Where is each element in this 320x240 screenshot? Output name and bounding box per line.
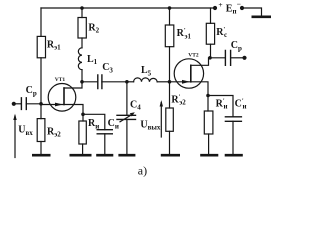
resistor R'e1 [165, 8, 174, 82]
resistor R'c [206, 8, 214, 58]
node drain VT1 / L1 / C3 [80, 80, 84, 84]
wire top supply bus [41, 7, 216, 9]
node C3 / L5 / C4 junction [125, 80, 129, 84]
svg-text:VT1: VT1 [55, 77, 66, 83]
node Ep minus terminal [240, 6, 244, 10]
svg-text:Eп: Eп [226, 4, 237, 16]
svg-text:+: + [218, 0, 222, 9]
wire gate VT2 [170, 81, 191, 83]
capacitor C3 [82, 75, 127, 89]
node junction R'e1 top [168, 6, 172, 10]
ground below Re2 [32, 154, 51, 157]
svg-text:L1: L1 [87, 54, 98, 66]
node R'c / drain VT2 / Cp out [208, 56, 212, 60]
capacitor Ci [83, 114, 112, 154]
ground below Ci [96, 154, 113, 157]
svg-text:Uвх: Uвх [18, 125, 33, 137]
inductor L5 [127, 78, 170, 82]
transistor VT2 [174, 58, 208, 96]
capacitor C4 variable [117, 82, 136, 154]
svg-text:VT2: VT2 [188, 52, 199, 58]
svg-text:R2: R2 [88, 22, 99, 34]
ground below C4 [118, 154, 135, 157]
inductor L1 [78, 38, 82, 82]
node source VT2 [206, 94, 210, 98]
svg-text:R'э1: R'э1 [177, 27, 192, 40]
node source VT1 [81, 113, 85, 117]
svg-text:L5: L5 [141, 65, 152, 77]
node input junction left rail [39, 102, 43, 106]
svg-text:C4: C4 [130, 99, 141, 111]
svg-text:R'и: R'и [216, 97, 228, 110]
wire left rail [40, 8, 42, 119]
ground below C'i [225, 154, 243, 157]
svg-text:Rэ2: Rэ2 [47, 126, 61, 138]
node L5 / R'e1 / R'e2 / VT2 gate [168, 80, 172, 84]
svg-text:а): а) [138, 163, 147, 177]
resistor R2 [78, 8, 86, 38]
svg-text:Rэ1: Rэ1 [47, 39, 61, 51]
resistor Re1 [37, 36, 45, 57]
capacitor C'i [208, 96, 241, 154]
resistor R'e2 [166, 82, 174, 154]
svg-text:C'и: C'и [235, 97, 247, 110]
capacitor Cp output [210, 51, 247, 66]
resistor Ri [79, 114, 86, 154]
arrow Uvx [13, 114, 16, 158]
ground chassis top right [252, 15, 272, 18]
ground below Ri [70, 154, 92, 157]
ground below R'i [200, 154, 218, 157]
ground below R'e2 [161, 154, 180, 157]
transistor VT1 [41, 82, 83, 115]
capacitor Cp input [12, 98, 41, 110]
svg-text:Uвых: Uвых [140, 119, 160, 131]
resistor R'i [204, 96, 213, 154]
node Ep plus terminal [213, 6, 217, 10]
svg-text:−: − [237, 0, 241, 9]
wire Ep minus to chassis [242, 8, 262, 16]
svg-text:C3: C3 [102, 62, 113, 74]
svg-text:R'э2: R'э2 [171, 93, 186, 106]
svg-text:Rи: Rи [88, 118, 99, 130]
arrow Uvyx [160, 100, 163, 137]
svg-text:Cр: Cр [26, 85, 37, 97]
node junction R2 top [80, 6, 84, 10]
resistor Re2 [37, 119, 45, 154]
svg-text:Cр: Cр [231, 40, 242, 52]
svg-text:R'c: R'c [216, 26, 227, 39]
